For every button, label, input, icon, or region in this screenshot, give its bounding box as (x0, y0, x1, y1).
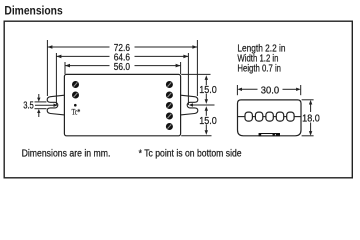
dimension 3.5 extension ticks (35, 102, 47, 109)
screw B5 (right column) (166, 123, 173, 130)
dimension 18.0 arrowheads (309, 100, 312, 136)
15.0 bottom extension line (body bottom) (181, 135, 211, 137)
dimension 64.6 arrowheads (56, 55, 188, 59)
bottom connector (end view) (259, 133, 280, 136)
screw B4 (right column) (166, 113, 173, 120)
screw A1 (left column) (72, 81, 79, 88)
device body (top view) (64, 74, 180, 135)
dimension 72.6 arrowheads (47, 45, 197, 49)
end view body (238, 100, 302, 136)
leader arrow into right slot (189, 103, 215, 106)
dimension 3.5 bottom arrow (37, 109, 40, 117)
18.0 top extension line (302, 99, 314, 101)
left mounting tab (47, 95, 64, 115)
svg-text:Dimensions: Dimensions (4, 4, 62, 18)
dimension 72.6 extension lines (47, 40, 197, 96)
dimension 30.0 arrowheads (237, 88, 300, 91)
dimension 30.0 extension ticks (237, 85, 300, 95)
dimension 72.6 line (47, 46, 197, 48)
screw B1 (right column) (166, 81, 173, 88)
end view mid line (238, 116, 302, 118)
dimension 3.5 top arrow (37, 94, 40, 102)
terminal T5 (end view) (287, 112, 294, 121)
terminal T2 (end view) (255, 112, 262, 121)
dimension 3.5 leader into left slot (35, 104, 58, 107)
svg-text:18.0: 18.0 (302, 113, 320, 124)
dimension 18.0 line (310, 103, 312, 133)
dimension 56.0 extension lines (65, 62, 181, 74)
svg-text:* Tc point is on bottom side: * Tc point is on bottom side (139, 149, 242, 160)
Tc point dot (74, 104, 77, 107)
dimension 30.0 line (241, 88, 298, 90)
screw A2 (left column) (72, 92, 79, 99)
terminal T3 (end view) (266, 112, 273, 121)
dimension 56.0 arrowheads (65, 64, 181, 68)
dimension 15.0 lower arrowheads (205, 106, 208, 135)
dimension 15.0 upper line (205, 78, 207, 100)
svg-text:56.0: 56.0 (114, 62, 131, 73)
screw B3 (right column) (166, 102, 173, 109)
18.0 bottom extension line (302, 135, 314, 137)
dimension 64.6 extension lines (56, 53, 188, 105)
svg-text:Dimensions are in mm.: Dimensions are in mm. (22, 149, 111, 160)
15.0 top extension line (body top) (181, 73, 210, 75)
svg-text:Heigth 0.7 in: Heigth 0.7 in (237, 64, 281, 75)
svg-text:15.0: 15.0 (199, 116, 217, 127)
dimension 15.0 upper arrowheads (205, 75, 208, 104)
terminal T4 (end view) (276, 112, 283, 121)
dimension 64.6 line (56, 55, 188, 57)
svg-text:Tc*: Tc* (72, 106, 81, 116)
terminal T1 (end view) (245, 112, 252, 121)
svg-text:15.0: 15.0 (199, 85, 217, 96)
right mounting tab (181, 95, 198, 115)
dimension 56.0 line (65, 65, 181, 67)
dimension 15.0 lower line (205, 109, 207, 132)
svg-text:30.0: 30.0 (261, 86, 280, 97)
screw B2 (right column) (166, 92, 173, 99)
svg-text:3.5: 3.5 (23, 101, 34, 112)
outer frame (4, 21, 352, 178)
